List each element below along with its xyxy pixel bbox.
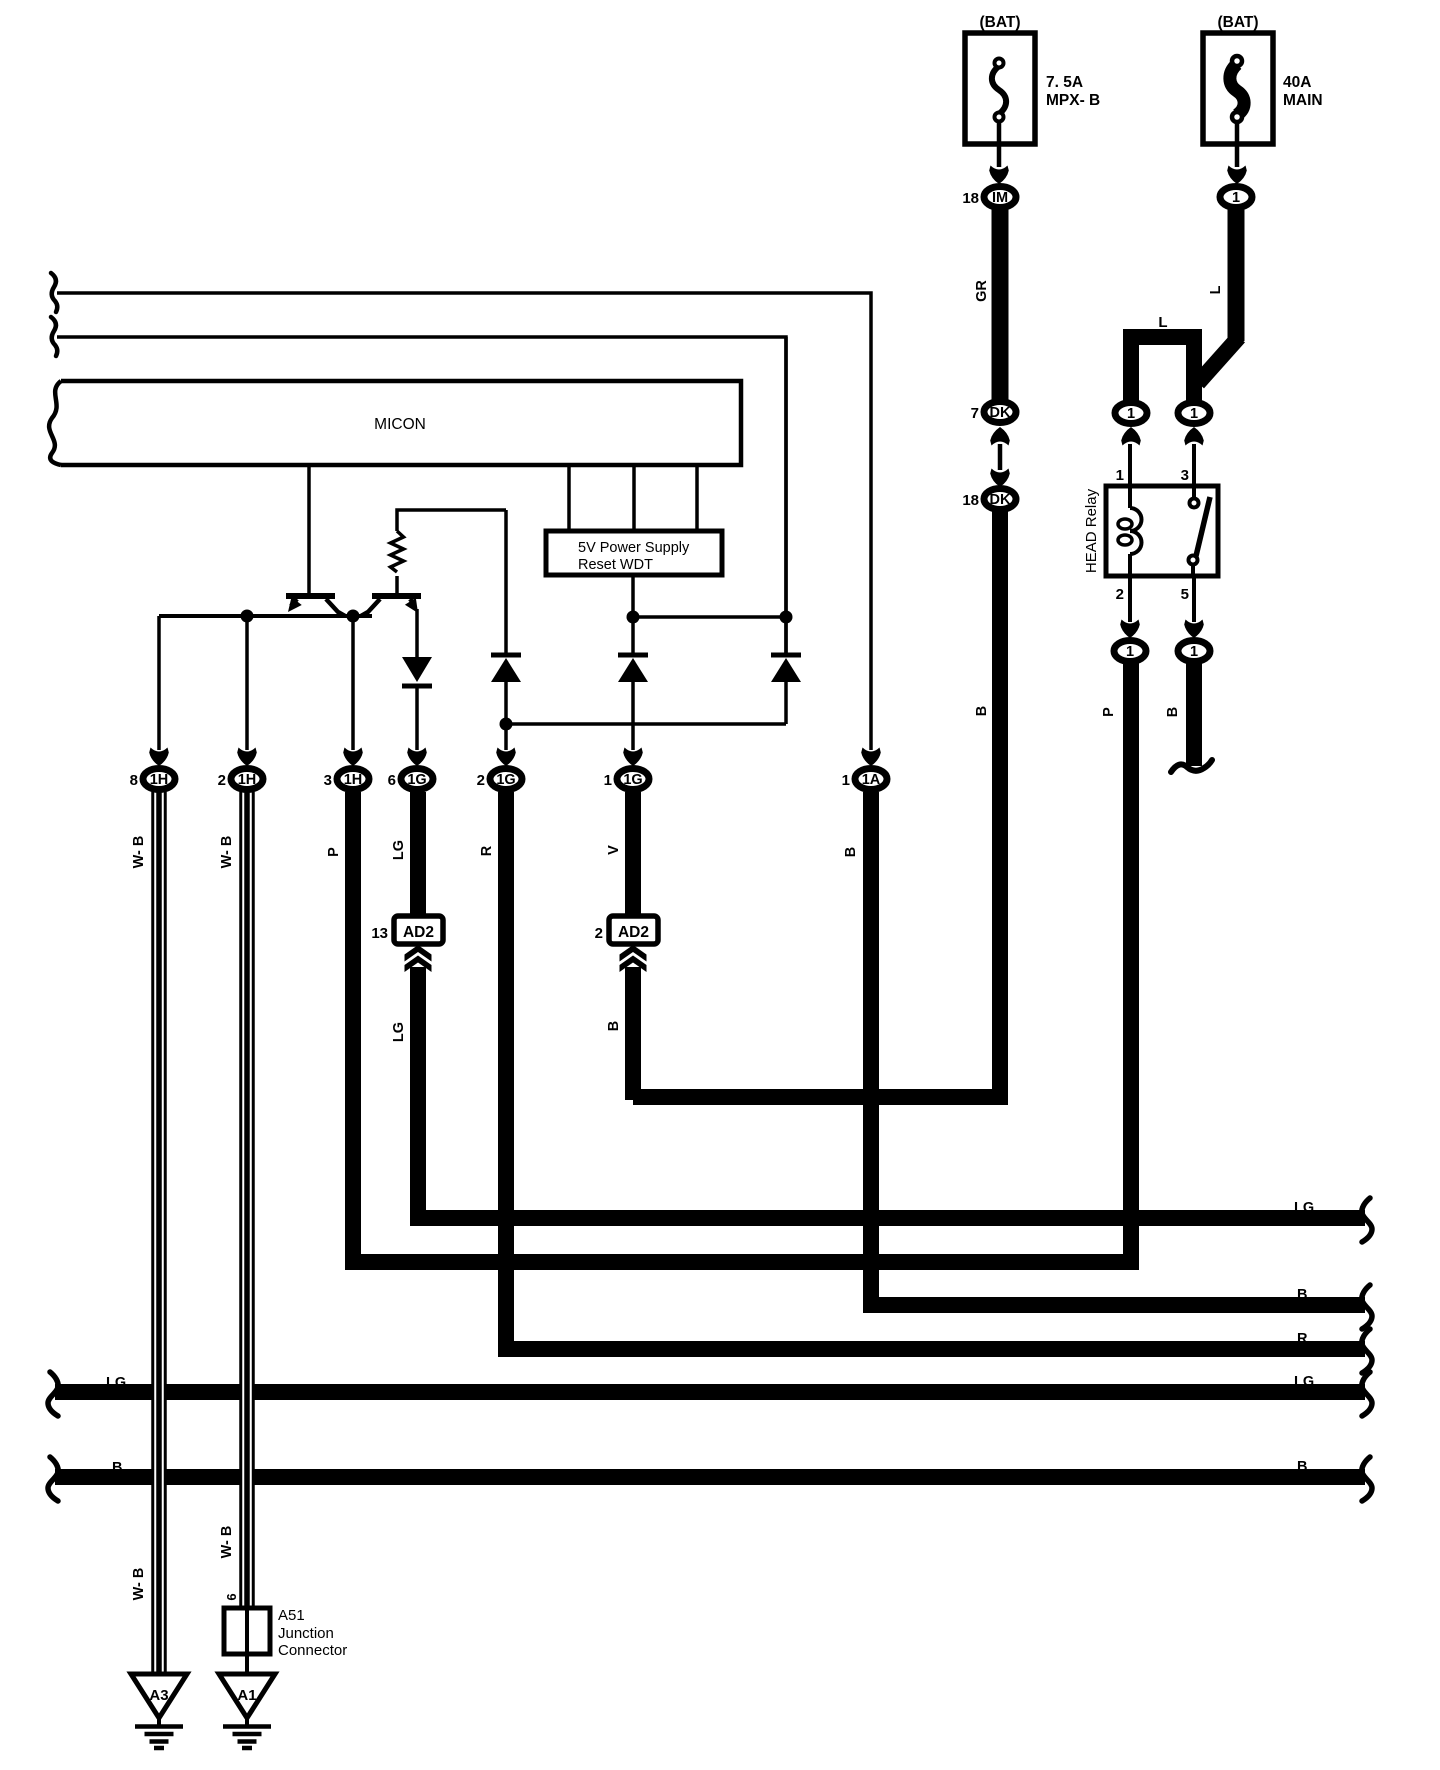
svg-text:5: 5: [1181, 586, 1189, 603]
svg-text:6: 6: [224, 1593, 239, 1600]
svg-text:DK: DK: [990, 405, 1011, 421]
svg-text:8: 8: [130, 772, 138, 789]
svg-text:2: 2: [218, 772, 226, 789]
svg-text:Reset WDT: Reset WDT: [578, 557, 653, 573]
svg-text:1H: 1H: [238, 772, 257, 788]
svg-text:18: 18: [962, 492, 979, 509]
svg-text:MPX- B: MPX- B: [1046, 92, 1100, 109]
svg-text:1: 1: [1116, 467, 1124, 484]
svg-text:1: 1: [1190, 644, 1198, 660]
svg-text:DK: DK: [990, 492, 1011, 508]
svg-text:7: 7: [971, 405, 979, 422]
svg-text:1: 1: [604, 772, 612, 789]
svg-text:1H: 1H: [150, 772, 169, 788]
svg-text:P: P: [1101, 707, 1117, 717]
svg-text:1: 1: [1190, 406, 1198, 422]
svg-text:3: 3: [1181, 467, 1189, 484]
svg-text:2: 2: [477, 772, 485, 789]
svg-text:(BAT): (BAT): [979, 14, 1020, 31]
svg-text:LG: LG: [1294, 1374, 1314, 1390]
svg-text:R: R: [479, 845, 495, 856]
svg-text:V: V: [606, 845, 622, 855]
svg-text:1: 1: [1127, 406, 1135, 422]
svg-text:1: 1: [842, 772, 850, 789]
svg-text:1A: 1A: [862, 772, 881, 788]
svg-text:7. 5A: 7. 5A: [1046, 74, 1083, 91]
svg-text:B: B: [1165, 707, 1181, 717]
svg-text:1G: 1G: [496, 772, 515, 788]
svg-text:Junction: Junction: [278, 1625, 334, 1642]
svg-text:HEAD Relay: HEAD Relay: [1083, 488, 1100, 573]
svg-text:MICON: MICON: [374, 416, 426, 433]
svg-text:18: 18: [962, 190, 979, 207]
svg-text:2: 2: [1116, 586, 1124, 603]
svg-text:W- B: W- B: [131, 1568, 147, 1601]
svg-text:W- B: W- B: [131, 836, 147, 869]
svg-text:LG: LG: [391, 840, 407, 860]
svg-text:L: L: [1208, 285, 1224, 294]
svg-text:6: 6: [388, 772, 396, 789]
svg-text:(BAT): (BAT): [1217, 14, 1258, 31]
svg-text:IM: IM: [992, 190, 1008, 206]
svg-text:B: B: [606, 1021, 622, 1031]
svg-text:B: B: [1297, 1287, 1307, 1303]
svg-text:AD2: AD2: [403, 924, 434, 941]
svg-text:R: R: [1297, 1331, 1308, 1347]
svg-text:P: P: [326, 847, 342, 857]
svg-text:Connector: Connector: [278, 1642, 347, 1659]
svg-text:1H: 1H: [344, 772, 363, 788]
svg-text:1: 1: [1232, 190, 1240, 206]
svg-text:1G: 1G: [407, 772, 426, 788]
svg-text:L: L: [1158, 314, 1167, 331]
svg-text:A1: A1: [237, 1687, 256, 1704]
svg-text:MAIN: MAIN: [1283, 92, 1323, 109]
svg-text:B: B: [112, 1460, 122, 1476]
svg-text:LG: LG: [391, 1022, 407, 1042]
svg-text:B: B: [843, 847, 859, 857]
svg-text:W- B: W- B: [219, 836, 235, 869]
svg-text:1: 1: [1126, 644, 1134, 660]
svg-text:B: B: [974, 706, 990, 716]
svg-text:13: 13: [371, 925, 388, 942]
svg-text:A3: A3: [149, 1687, 168, 1704]
svg-text:40A: 40A: [1283, 74, 1311, 91]
svg-text:A51: A51: [278, 1607, 305, 1624]
svg-text:LG: LG: [106, 1375, 126, 1391]
svg-text:5V Power Supply: 5V Power Supply: [578, 540, 690, 556]
svg-text:2: 2: [595, 925, 603, 942]
svg-text:GR: GR: [974, 280, 990, 302]
svg-text:LG: LG: [1294, 1200, 1314, 1216]
svg-text:3: 3: [324, 772, 332, 789]
svg-text:B: B: [1297, 1459, 1307, 1475]
svg-text:AD2: AD2: [618, 924, 649, 941]
svg-text:1G: 1G: [623, 772, 642, 788]
svg-text:W- B: W- B: [219, 1526, 235, 1559]
